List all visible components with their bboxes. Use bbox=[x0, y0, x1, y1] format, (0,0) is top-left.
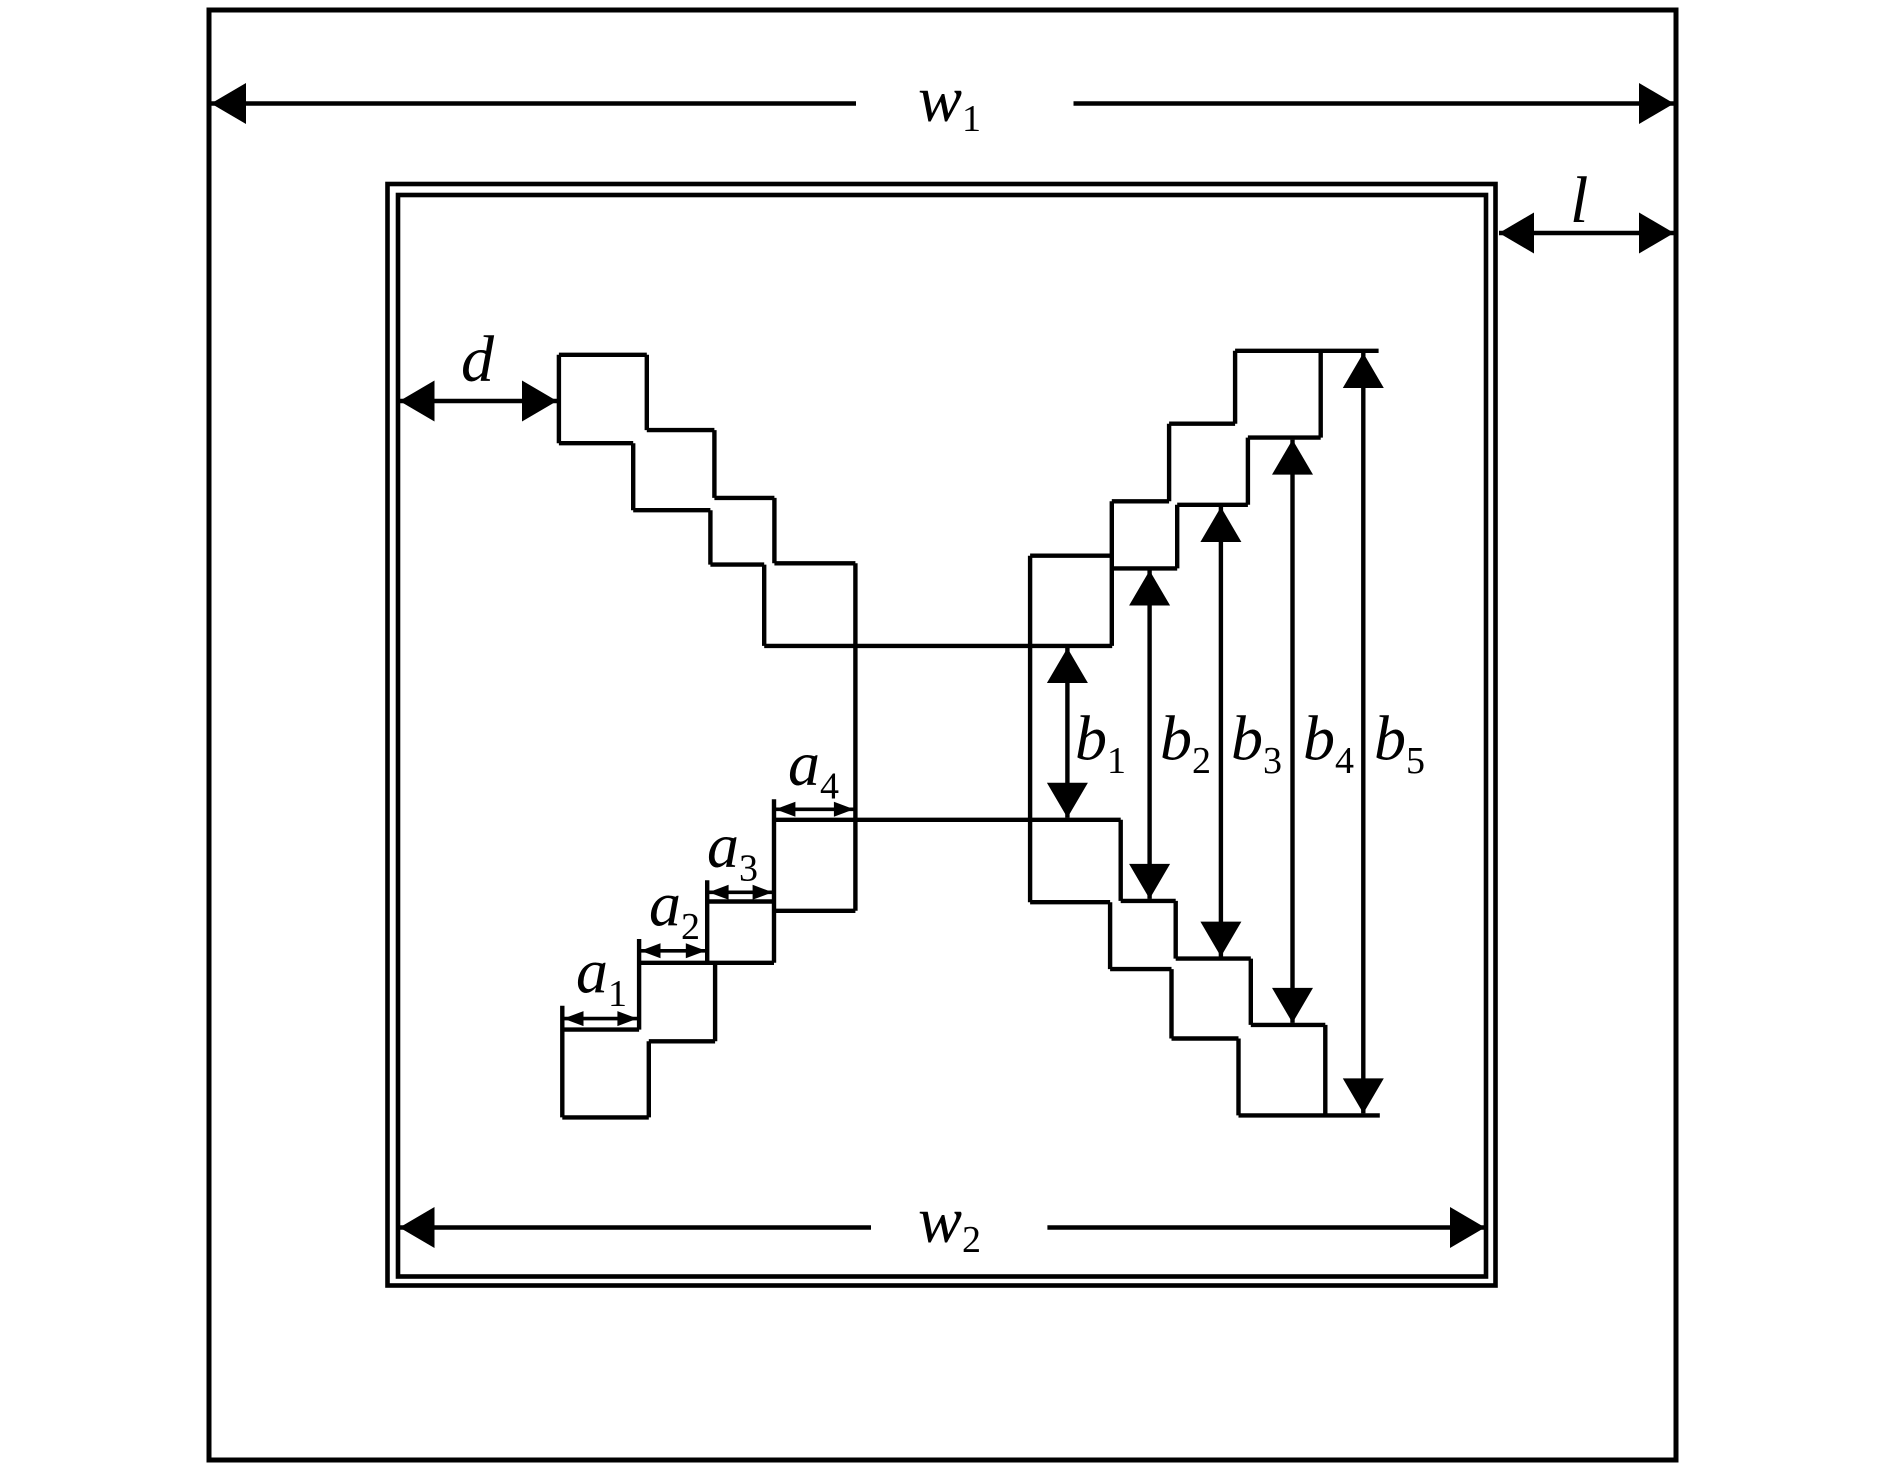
arrowhead b1 bottom bbox=[1047, 783, 1088, 818]
dimension w1 shaft left segment bbox=[209, 101, 856, 105]
patch upper-left arm square2 left edge bbox=[631, 443, 635, 510]
patch upper-right arm square4 top edge bbox=[1030, 554, 1112, 558]
dimension b3 shaft bbox=[1219, 507, 1223, 957]
patch lower-left arm square4 left edge with a4 tick and square3 right edge merged bbox=[772, 799, 776, 963]
patch upper-right arm square1 bottom edge bbox=[1248, 435, 1321, 439]
patch upper-left arm square2 top edge bbox=[647, 428, 715, 432]
arrowhead w1 left bbox=[211, 83, 246, 124]
patch lower-right arm square2 top edge bbox=[1176, 956, 1251, 960]
patch lower-left arm square1 top edge bbox=[562, 1027, 639, 1031]
patch upper-left arm square4 top edge bbox=[774, 561, 855, 565]
arrowhead d right bbox=[522, 381, 557, 422]
patch center-right vertical line bbox=[1028, 556, 1032, 903]
patch lower-left arm square2 right edge bbox=[713, 963, 717, 1042]
patch lower-right arm square4 bottom edge bbox=[1030, 900, 1110, 904]
dimension d shaft bbox=[399, 399, 557, 403]
dimension a4 shaft bbox=[776, 807, 854, 811]
patch lower-right arm square3 right edge bbox=[1173, 901, 1177, 959]
dimension a2 shaft bbox=[641, 949, 706, 953]
patch upper-right arm square3 top edge bbox=[1112, 499, 1169, 503]
arrowhead a3 left bbox=[709, 885, 729, 900]
patch upper-left arm square1 right edge bbox=[645, 355, 649, 430]
patch lower-right arm square3 left edge bbox=[1108, 902, 1112, 969]
arrowhead w2 right bbox=[1450, 1207, 1485, 1248]
arrowhead b5 top bbox=[1343, 353, 1384, 388]
dimension b2 shaft bbox=[1147, 571, 1151, 899]
patch lower-right arm square2 left edge bbox=[1169, 969, 1173, 1038]
patch upper-right arm square3 bottom edge bbox=[1112, 566, 1177, 570]
patch lower-right arm square4 right edge bbox=[1118, 820, 1122, 901]
patch lower-left arm square1 left edge with a1 tick bbox=[560, 1006, 564, 1118]
dimension b4 shaft bbox=[1290, 440, 1294, 1023]
svg-text:l: l bbox=[1570, 164, 1588, 237]
patch upper-left arm square2 right edge bbox=[712, 430, 716, 498]
dimension w1 shaft right segment bbox=[1074, 101, 1677, 105]
arrowhead b3 top bbox=[1200, 507, 1241, 542]
arrowhead d left bbox=[400, 381, 435, 422]
arrowhead l left bbox=[1499, 213, 1534, 254]
patch upper-left arm square1 left edge bbox=[557, 355, 561, 443]
patch lower-left arm square2 bottom edge bbox=[649, 1039, 715, 1043]
arrowhead b4 top bbox=[1272, 440, 1313, 475]
patch upper-right arm square2 top edge bbox=[1169, 422, 1235, 426]
patch lower-right arm square2 bottom edge bbox=[1172, 1036, 1239, 1040]
arrowhead a3 right bbox=[753, 885, 773, 900]
patch lower-left arm square1 right edge bbox=[647, 1041, 651, 1117]
arrowhead a1 left bbox=[564, 1011, 584, 1026]
patch upper-right arm square2 left edge bbox=[1167, 424, 1171, 502]
dimension b1 shaft bbox=[1065, 648, 1069, 818]
patch upper-left arm square4 left edge bbox=[762, 565, 766, 646]
arrowhead w2 left bbox=[400, 1207, 435, 1248]
patch upper-right arm square1 left edge bbox=[1233, 351, 1237, 424]
arrowhead b4 bottom bbox=[1272, 988, 1313, 1023]
arrowhead b5 bottom bbox=[1343, 1078, 1384, 1113]
arrowhead l right bbox=[1639, 213, 1674, 254]
patch upper-right arm square2 bottom edge bbox=[1177, 503, 1248, 507]
patch center-left vertical line bbox=[853, 563, 857, 911]
arrowhead b3 bottom bbox=[1200, 922, 1241, 957]
dimension l shaft bbox=[1499, 231, 1674, 235]
patch upper-right arm square3 left edge merged with square4 right edge bbox=[1110, 501, 1114, 646]
arrowhead a1 right bbox=[617, 1011, 637, 1026]
patch lower-left arm square3 top edge bbox=[707, 899, 774, 903]
guard ring inner line bbox=[398, 195, 1486, 1277]
dimension b5 shaft bbox=[1361, 353, 1365, 1113]
arrowhead a2 right bbox=[686, 943, 706, 958]
guard ring outer line bbox=[388, 184, 1496, 1286]
patch lower-right arm square1 left edge bbox=[1236, 1039, 1240, 1116]
patch lower-right arm square2 right edge bbox=[1249, 959, 1253, 1025]
arrowhead a4 right bbox=[834, 802, 854, 817]
patch lower-right arm square1 right edge bbox=[1323, 1025, 1327, 1116]
arrowhead b2 bottom bbox=[1129, 864, 1170, 899]
patch lower-left arm square3 bottom and square2 top merged edge bbox=[639, 961, 774, 965]
dimension a1 shaft bbox=[564, 1017, 637, 1021]
dimension a3 shaft bbox=[709, 890, 772, 894]
patch upper-right arm square3 right edge bbox=[1175, 505, 1179, 569]
arrowhead w1 right bbox=[1639, 83, 1674, 124]
patch lower-left arm square1 bottom edge bbox=[562, 1115, 649, 1119]
patch upper-left arm square1 top edge bbox=[559, 353, 647, 357]
arrowhead b2 top bbox=[1129, 571, 1170, 606]
svg-text:d: d bbox=[461, 323, 495, 396]
patch lower-left arm square3 left edge with a3 tick bbox=[705, 880, 709, 963]
patch upper-left arm square1 bottom edge bbox=[559, 441, 633, 445]
patch lower-left arm square2 left edge with a2 tick bbox=[637, 939, 641, 1030]
patch upper-left arm square3 left edge bbox=[708, 510, 712, 564]
patch upper-left arm square3 bottom edge bbox=[710, 562, 764, 566]
patch lower-right arm square1 top edge bbox=[1251, 1023, 1326, 1027]
outer substrate boundary rectangle bbox=[209, 10, 1676, 1460]
patch upper-left arm square3 top edge bbox=[714, 496, 774, 500]
patch lower-right arm square1 bottom edge with b5 reference extension bbox=[1239, 1113, 1380, 1117]
patch center horizontal line H2 bbox=[774, 818, 1121, 822]
patch upper-right arm square1 right edge bbox=[1318, 351, 1322, 438]
patch upper-left arm square2 bottom edge bbox=[633, 508, 710, 512]
patch upper-right arm square2 right edge bbox=[1246, 438, 1250, 505]
arrowhead a4 left bbox=[775, 802, 795, 817]
patch upper-right arm square1 top edge with b5 reference extension bbox=[1235, 349, 1379, 353]
patch upper-left arm square3 right edge bbox=[772, 498, 776, 563]
arrowhead a2 left bbox=[641, 943, 661, 958]
dimension w2 shaft right segment bbox=[1047, 1225, 1486, 1229]
patch lower-right arm square3 bottom edge bbox=[1110, 967, 1171, 971]
arrowhead b1 top bbox=[1047, 648, 1088, 683]
patch lower-right arm square3 top edge bbox=[1121, 899, 1176, 903]
patch center horizontal line H1 bbox=[764, 644, 1112, 648]
dimension w2 shaft left segment bbox=[398, 1225, 871, 1229]
patch lower-left arm square4 bottom edge bbox=[774, 909, 855, 913]
